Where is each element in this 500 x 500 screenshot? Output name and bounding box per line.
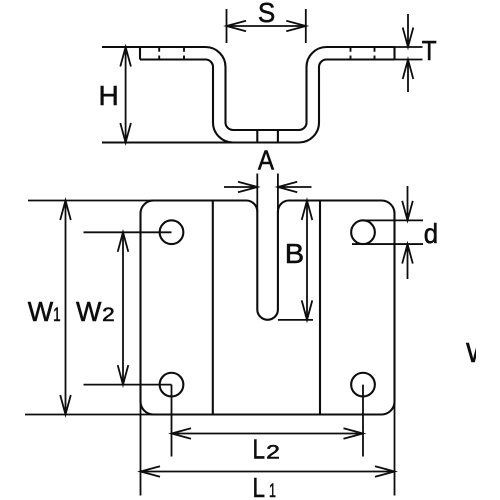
plate outline with slot bbox=[141, 201, 395, 415]
hole top-right bbox=[351, 220, 375, 244]
dimension B arrowheads bbox=[302, 201, 313, 320]
svg-text:T: T bbox=[422, 35, 437, 66]
dimension B line bbox=[306, 201, 308, 320]
svg-text:L1: L1 bbox=[253, 472, 277, 500]
dimension W2 extension line top bbox=[84, 231, 172, 233]
svg-text:A: A bbox=[258, 145, 274, 176]
dimension L2 arrowheads bbox=[172, 428, 364, 439]
dimension W1 line bbox=[65, 201, 67, 415]
section right end cap bbox=[393, 47, 395, 60]
dimension L2 extension lines bbox=[172, 385, 364, 457]
dimension W2 arrowheads bbox=[118, 232, 129, 384]
dimension W1 extension line top bbox=[28, 200, 155, 202]
hole bottom-left bbox=[160, 373, 184, 397]
section bottom line with H extension bbox=[102, 141, 234, 143]
dimension T arrow top bbox=[403, 14, 414, 47]
partial W label at right edge bbox=[466, 337, 492, 368]
section slot left edge bbox=[256, 130, 258, 143]
dimension L1 extension lines bbox=[141, 401, 395, 496]
section top surface profile bbox=[102, 47, 395, 130]
dimension W1 extension line bottom bbox=[25, 414, 156, 416]
dimension L2 line bbox=[172, 433, 364, 435]
hole bottom-right bbox=[351, 373, 375, 397]
section left end cap bbox=[139, 47, 141, 60]
dimension L1 arrowheads bbox=[141, 466, 395, 477]
dimension H arrowheads bbox=[120, 47, 131, 143]
dimension d arrow bottom bbox=[402, 244, 413, 279]
svg-text:W: W bbox=[466, 337, 492, 368]
section slot right edge bbox=[277, 130, 279, 143]
dimension A arrow right bbox=[278, 182, 312, 193]
dimension d arrow top bbox=[402, 186, 413, 220]
dimension H line bbox=[125, 47, 127, 143]
hidden hole line right flange right bbox=[374, 47, 376, 61]
dimension S line bbox=[227, 25, 306, 27]
dimension T arrow bottom bbox=[403, 60, 414, 93]
dimension d tangent line bottom bbox=[352, 243, 423, 245]
dimension S arrowheads bbox=[227, 21, 306, 32]
svg-text:W1: W1 bbox=[28, 296, 61, 327]
dimension d tangent line top bbox=[363, 219, 423, 221]
dimension T extension lines bbox=[395, 47, 423, 60]
hidden hole line right flange left bbox=[350, 47, 352, 61]
svg-text:d: d bbox=[424, 218, 438, 249]
hole top-left bbox=[160, 220, 184, 244]
dimension W2 extension line bottom bbox=[84, 384, 172, 386]
svg-text:H: H bbox=[99, 80, 119, 111]
dimension A arrow left bbox=[224, 182, 257, 193]
dimension W1 arrowheads bbox=[60, 201, 71, 415]
bend line right bbox=[319, 201, 321, 415]
dimension W2 line bbox=[122, 232, 124, 384]
svg-text:B: B bbox=[285, 238, 304, 269]
dimension S extension lines bbox=[227, 9, 306, 43]
hidden hole line left flange left bbox=[158, 47, 160, 61]
section bottom surface profile bbox=[140, 60, 395, 143]
svg-text:L2: L2 bbox=[253, 433, 281, 464]
dimension B extension line bottom bbox=[278, 319, 313, 321]
dimension A extension lines bbox=[257, 174, 278, 213]
svg-text:W2: W2 bbox=[76, 296, 115, 327]
hidden hole line left flange right bbox=[183, 47, 185, 61]
svg-text:S: S bbox=[258, 0, 275, 28]
dimension L1 line bbox=[141, 471, 395, 473]
bend line left bbox=[212, 201, 214, 415]
